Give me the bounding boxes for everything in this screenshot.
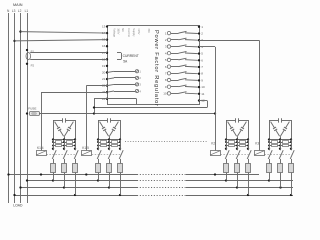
terminal strip left, pins 13-24 xyxy=(102,25,108,101)
svg-text:5: 5 xyxy=(201,52,203,56)
wire N rail xyxy=(7,9,10,203)
label CURRENT 5A pins 17-18 xyxy=(117,53,139,64)
svg-text:5A: 5A xyxy=(123,59,128,63)
wire fuse line to coils common xyxy=(39,112,216,114)
fuses F3 and legs to buses xyxy=(224,159,251,195)
wire L2 to pin 14 xyxy=(19,30,107,33)
svg-text:K2: K2 xyxy=(211,141,215,145)
svg-text:415V: 415V xyxy=(137,28,141,34)
svg-text:4: 4 xyxy=(165,51,167,55)
svg-text:9: 9 xyxy=(165,85,167,89)
contactor K3 xyxy=(254,140,294,159)
svg-text:13: 13 xyxy=(102,25,106,29)
svg-text:1: 1 xyxy=(139,70,141,74)
relay contacts 1-10 of U1 xyxy=(163,31,198,95)
svg-text:380V: 380V xyxy=(116,28,120,34)
svg-text:6: 6 xyxy=(165,65,167,69)
svg-text:L3: L3 xyxy=(12,9,16,13)
node MAIN xyxy=(13,3,23,7)
wire bus L1 xyxy=(26,179,293,181)
capacitor bank C2 (delta) xyxy=(97,118,121,140)
wire pin 3 to coil K3 xyxy=(199,40,260,151)
svg-text:7: 7 xyxy=(201,65,203,69)
svg-text:19: 19 xyxy=(102,64,106,68)
svg-text:10: 10 xyxy=(201,85,205,89)
contactor K1.4 xyxy=(36,140,78,159)
pin 24 internal wire xyxy=(107,99,137,105)
Power Factor Regulator U1 xyxy=(108,26,200,107)
svg-text:5: 5 xyxy=(165,58,167,62)
svg-text:8: 8 xyxy=(201,72,203,76)
wire CT S2 to pin 18 xyxy=(30,59,107,61)
svg-text:K1.5: K1.5 xyxy=(82,146,89,150)
svg-text:Voltage: Voltage xyxy=(112,28,116,37)
svg-text:1: 1 xyxy=(201,25,203,29)
svg-text:LOAD: LOAD xyxy=(13,204,23,208)
svg-text:Control: Control xyxy=(127,28,131,37)
capacitor bank C3 (delta) xyxy=(225,118,249,140)
svg-text:6: 6 xyxy=(201,58,203,62)
terminal strip right, pins 1-12 xyxy=(198,25,205,103)
svg-text:20: 20 xyxy=(102,70,106,74)
wire CT S1 to pin 17 xyxy=(30,52,107,54)
svg-text:2: 2 xyxy=(139,76,141,80)
svg-text:N: N xyxy=(7,9,10,13)
svg-text:L1: L1 xyxy=(25,9,29,13)
svg-text:3: 3 xyxy=(139,83,141,87)
svg-text:K1.4: K1.4 xyxy=(37,146,44,150)
current transformer CT1 on L1, P1/P2 xyxy=(26,49,35,68)
wire pin 22 to coil K1.5 xyxy=(86,86,107,151)
discharge resistors R1a/R1b xyxy=(52,141,76,147)
fuses F4 and legs to buses xyxy=(267,159,294,195)
wire L3 to pin 15 xyxy=(13,40,107,42)
svg-text:2: 2 xyxy=(201,32,203,36)
discharge resistors R4a/R4b xyxy=(268,141,292,147)
continuation dots (more stages) xyxy=(125,141,208,143)
fuses F1 and legs to buses xyxy=(51,159,78,195)
svg-text:9: 9 xyxy=(201,78,203,82)
wire L3 rail xyxy=(12,9,16,203)
wire L1 rail xyxy=(25,9,29,203)
svg-text:3: 3 xyxy=(165,45,167,49)
svg-text:2: 2 xyxy=(165,38,167,42)
svg-text:MAIN: MAIN xyxy=(13,3,23,7)
fuses F2 and legs to buses xyxy=(96,159,123,195)
svg-text:P1: P1 xyxy=(31,50,35,54)
capacitor bank C1 (delta) xyxy=(52,118,76,140)
capacitor bank C4 (delta) xyxy=(268,118,292,140)
svg-text:1: 1 xyxy=(165,31,167,35)
svg-text:NC: NC xyxy=(121,28,125,32)
discharge resistors R2a/R2b xyxy=(97,141,121,147)
wire bus L3 xyxy=(13,194,293,196)
fuse FU1 control supply xyxy=(26,107,40,116)
wire pin 23 to coil K1.4 xyxy=(41,92,107,151)
svg-text:45C: 45C xyxy=(147,28,151,33)
node LOAD xyxy=(13,204,23,208)
wire bus N xyxy=(7,173,259,175)
svg-text:4: 4 xyxy=(139,89,141,93)
svg-text:FUSE: FUSE xyxy=(28,107,36,111)
wire pin 24 to fuse line xyxy=(94,99,107,114)
input terminal labels xyxy=(112,28,151,37)
wire pin 4 to coil K2 xyxy=(199,47,216,151)
wire L2 rail xyxy=(18,9,22,203)
svg-text:8: 8 xyxy=(165,78,167,82)
wire bus L2 xyxy=(19,186,293,188)
svg-text:7: 7 xyxy=(165,72,167,76)
discharge resistors R3a/R3b xyxy=(225,141,249,147)
svg-text:10: 10 xyxy=(163,92,167,96)
svg-text:P2: P2 xyxy=(31,63,35,67)
wire pin 12 common return xyxy=(93,101,208,109)
alarm output contacts pins 20-23 xyxy=(107,70,141,94)
svg-text:21: 21 xyxy=(102,77,106,81)
svg-text:Power Factor Regulator: Power Factor Regulator xyxy=(153,30,159,106)
contactor K2 xyxy=(210,140,251,159)
svg-text:CURRENT: CURRENT xyxy=(123,54,139,58)
svg-text:L2: L2 xyxy=(18,9,22,13)
svg-text:Supply: Supply xyxy=(132,28,136,37)
svg-text:K3: K3 xyxy=(255,141,259,145)
svg-text:11: 11 xyxy=(201,92,204,96)
svg-text:16: 16 xyxy=(102,44,106,48)
contactor K1.5 xyxy=(81,140,123,159)
